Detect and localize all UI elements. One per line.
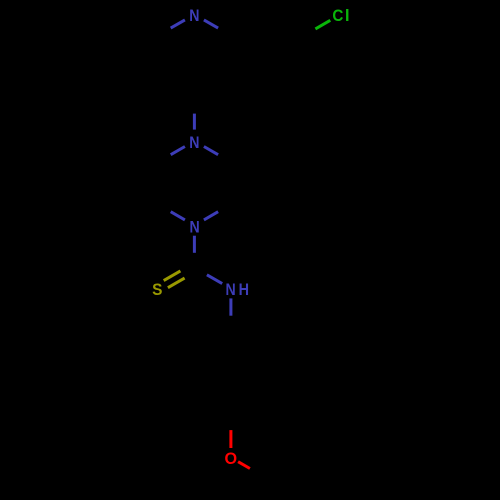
bond C4-N1prime (N half) — [193, 114, 196, 130]
C=S double bond line 2 (S half) — [168, 278, 185, 288]
bond C7-Cl (Cl half) — [315, 20, 330, 29]
bond N4prime-C3prime (N half) — [204, 212, 218, 220]
bond O-CH3 (O half) — [238, 462, 250, 469]
bond N4prime-C5prime (N half) — [171, 212, 185, 220]
svg-text:l: l — [345, 6, 350, 25]
svg-text:N: N — [189, 6, 199, 25]
bond N4prime-Cthio (N half) — [193, 236, 196, 253]
C=S double bond line 1 (S half) — [164, 271, 181, 281]
bond Namide-C1aryl (N half) — [229, 298, 232, 315]
svg-text:C: C — [332, 6, 343, 25]
svg-text:N: N — [189, 133, 199, 152]
bond N1prime-C6prime (N half) — [171, 147, 185, 155]
svg-text:H: H — [239, 280, 249, 299]
bond N1-C8a (N half) — [204, 20, 218, 28]
svg-text:N: N — [190, 217, 200, 236]
bond C4aryl-O (O half) — [229, 430, 232, 448]
svg-text:S: S — [152, 280, 162, 299]
bond N1prime-C2prime (N half) — [204, 147, 218, 155]
svg-text:N: N — [226, 280, 236, 299]
bond Cthio-Namide (N half) — [207, 275, 222, 284]
bond N1-C2 (N half) — [171, 20, 185, 28]
svg-text:O: O — [225, 449, 238, 468]
